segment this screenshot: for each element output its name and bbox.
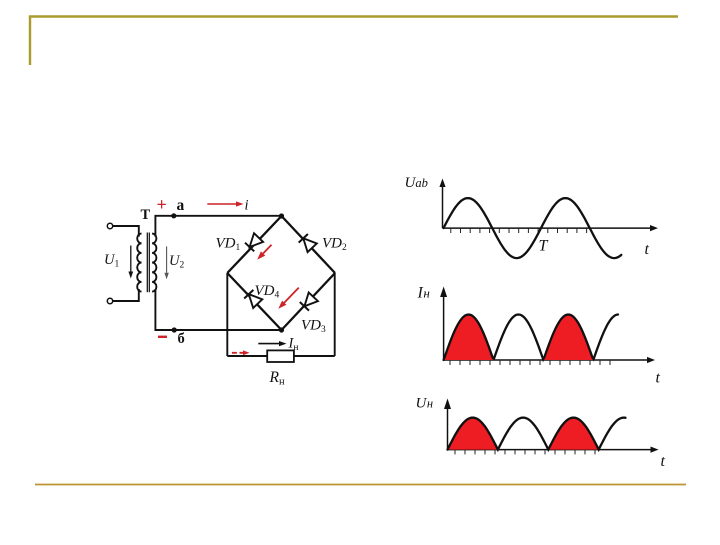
load current arrow In (258, 343, 279, 345)
wire L-B (227, 273, 281, 330)
svg-text:Iн: Iн (417, 285, 430, 302)
red fill hump1 plot3 (448, 418, 498, 450)
node top vertex (279, 213, 284, 218)
svg-text:t: t (661, 453, 666, 470)
ticks plot1 (450, 229, 452, 233)
wire bottom rail left (227, 355, 267, 357)
svg-text:T: T (141, 207, 151, 223)
arrow U1 (130, 246, 132, 272)
minus sign (158, 336, 167, 338)
bridge diamond wires (227, 216, 335, 330)
x axis plot2 (444, 359, 648, 361)
y axis plot1 (442, 184, 444, 228)
wire bottom rail right (294, 355, 335, 357)
svg-text:i: i (245, 198, 249, 214)
primary winding (137, 234, 141, 292)
red fill hump3 plot2 (543, 315, 593, 361)
plot 3: Un axes (448, 404, 652, 450)
wire primary top (113, 226, 139, 237)
svg-text:Uн: Uн (416, 396, 434, 412)
svg-text:Uab: Uab (405, 175, 428, 191)
diode VD4 (249, 294, 262, 308)
svg-text:+: + (157, 195, 167, 215)
rectified curve In (444, 315, 618, 361)
current arrow i (207, 203, 236, 205)
plot 1: Uab axes (443, 184, 652, 228)
node b dot (172, 327, 177, 332)
red dashed current arrow (232, 352, 243, 354)
svg-text:t: t (645, 241, 650, 258)
y-axis arrowhead plot2 (440, 287, 447, 298)
node bottom vertex (279, 327, 284, 332)
red fill hump1 plot2 (444, 315, 494, 361)
svg-text:a: a (177, 197, 185, 214)
wire B-R (282, 273, 336, 330)
terminal top (107, 223, 112, 228)
svg-text:T: T (539, 238, 549, 255)
node a dot (171, 213, 176, 218)
red fill hump3 plot3 (548, 418, 598, 450)
diode VD1 (250, 233, 264, 247)
secondary winding (152, 234, 156, 292)
y axis plot3 (447, 404, 449, 450)
wire left drop (226, 273, 228, 356)
x-axis arrowhead plot1 (650, 225, 658, 231)
y axis plot2 (443, 293, 445, 360)
diode VD2 (303, 238, 317, 252)
resistor Rn (267, 350, 294, 362)
y-axis arrowhead plot3 (444, 399, 451, 410)
current arrow at VD4 (284, 288, 299, 303)
wire secondary bottom to node b (155, 289, 281, 330)
slide bottom rule (35, 484, 686, 486)
sine curve Uab (444, 198, 622, 258)
wire primary bottom (113, 289, 139, 301)
transformer T (107, 216, 281, 330)
current arrow at VD1 (263, 245, 271, 254)
wire secondary top to node a (155, 216, 281, 237)
svg-text:б: б (178, 331, 185, 347)
wire T-R (282, 216, 336, 273)
wire T-L (227, 216, 281, 273)
x-axis arrowhead plot3 (651, 447, 659, 453)
wire right drop (334, 273, 336, 356)
x-axis arrowhead plot2 (647, 357, 655, 363)
slide top rule (30, 17, 678, 66)
x axis plot3 (448, 449, 652, 451)
plot 2: In axes (444, 293, 648, 360)
rectified curve Un (448, 418, 626, 450)
terminal bottom (107, 298, 112, 303)
ticks plot2 (449, 361, 451, 365)
ticks plot3 (454, 450, 456, 454)
arrow U2 (166, 246, 168, 272)
y-axis arrowhead plot1 (439, 179, 445, 188)
diode VD3 (304, 293, 318, 307)
svg-text:t: t (656, 370, 661, 387)
core (147, 233, 149, 293)
x axis plot1 (443, 227, 652, 229)
